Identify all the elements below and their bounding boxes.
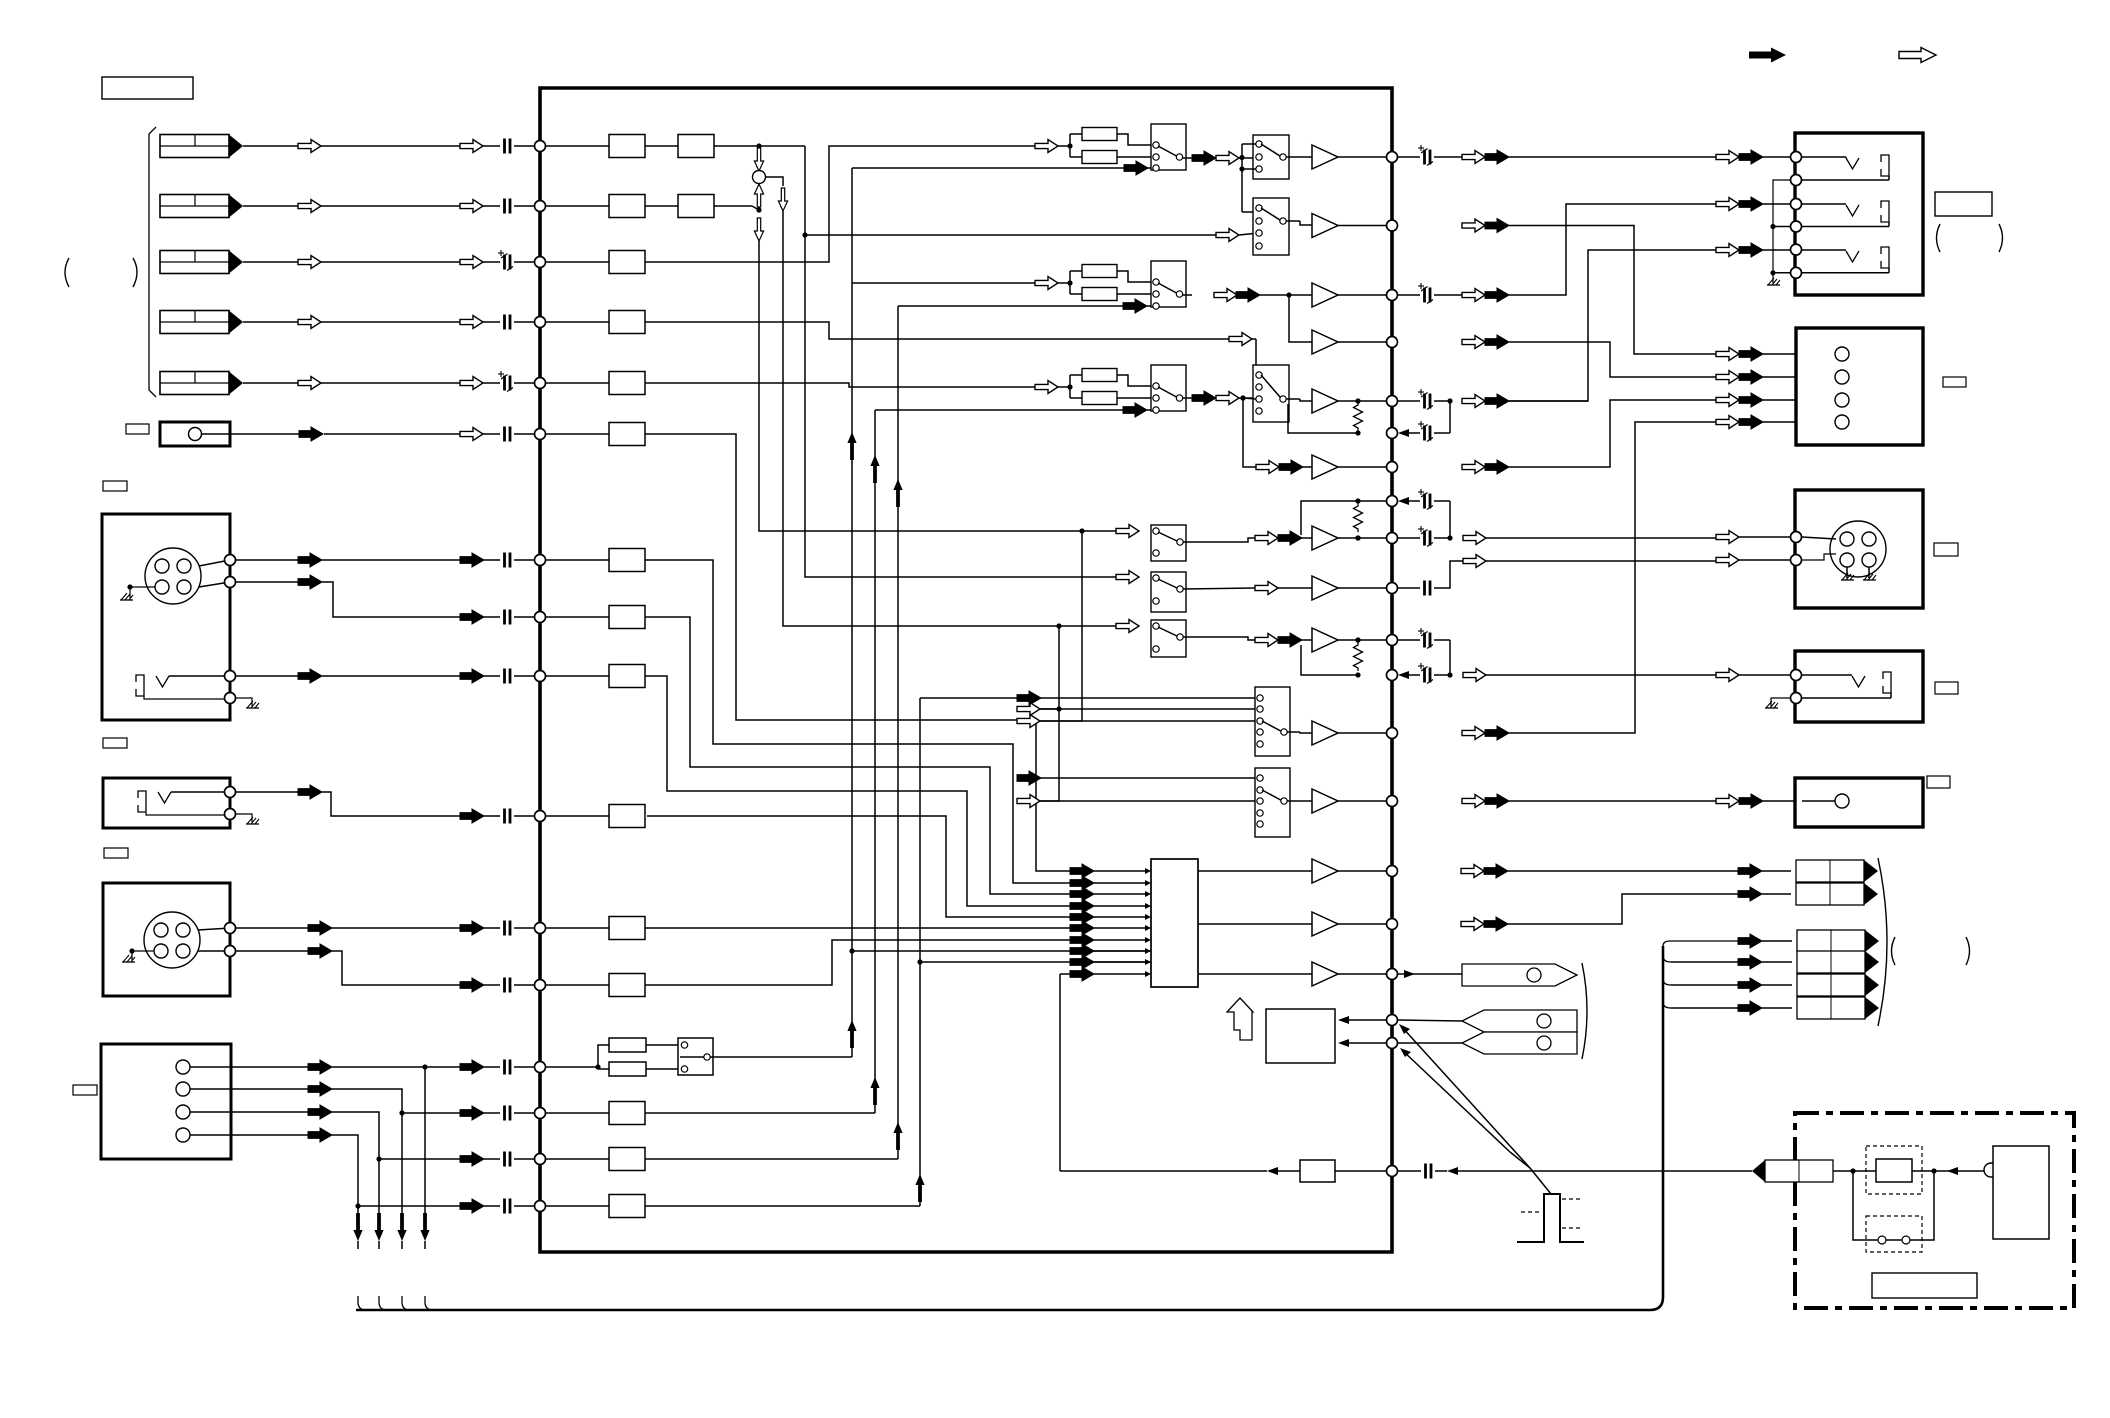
legend filled-arrow [1749, 48, 1786, 63]
wire CH5 input [243, 382, 298, 384]
amp row401 [1286, 398, 1300, 400]
insert send arrow [758, 146, 760, 149]
XLR line input box [103, 883, 230, 996]
wire CH1 to insert [714, 145, 759, 147]
row974 wire to level pennant [1338, 973, 1392, 975]
CH3 riser to pad M1 [645, 146, 1035, 262]
block2 row 206 [678, 195, 714, 218]
block row 1159 [609, 1148, 645, 1171]
amp467 to terminal [1338, 466, 1392, 468]
pad select switch M3 [1151, 365, 1186, 411]
row675 wire to jack out [1700, 674, 1716, 676]
row342 wire to headphone box c2 [1509, 342, 1716, 377]
amp row225 [1286, 220, 1300, 222]
wire CH2 to insert [714, 205, 752, 207]
coupling capacitor row1113 [505, 1106, 511, 1121]
terminal row401 [1387, 396, 1398, 407]
terminal row501 [1387, 496, 1398, 507]
feedback tie 640-675 [1449, 640, 1451, 675]
block row 816 [609, 805, 645, 828]
jack2 tip [158, 792, 171, 803]
bus B vertical (tape L) [874, 410, 876, 1113]
connector pin 4 [176, 1128, 190, 1142]
row225 output arrows [1462, 219, 1485, 232]
headphone terminal 377 [1835, 370, 1849, 384]
4-pin connector input box [101, 1044, 231, 1159]
feedback pair rows 501/538 [1354, 503, 1363, 532]
terminal row733 [1387, 728, 1398, 739]
bus C top feed to M2 switch [898, 305, 1123, 307]
wire S2 feed [1017, 777, 1036, 779]
phones jack1 tip [1846, 158, 1859, 169]
bus D top feed to switch S1 [920, 697, 1017, 699]
pad resistor lower row1067 [598, 1068, 609, 1070]
row538 output arrow [1463, 532, 1486, 545]
terminal mic [535, 429, 546, 440]
terminal row1020 [1387, 1015, 1398, 1026]
XLR1 jack bracket [136, 675, 144, 696]
row157 cap [1398, 156, 1420, 158]
input plug CH5 [160, 372, 243, 395]
jack out label box [1935, 682, 1958, 694]
aux switch A4 output [1183, 637, 1255, 640]
block2 row 146 [678, 135, 714, 158]
terminal row974 [1387, 969, 1398, 980]
row538 wire to XLR out [1700, 537, 1716, 539]
headphone 4ch output box [1796, 328, 1923, 445]
XLR2 ground [122, 955, 135, 962]
XLR1 sleeve ground wire [236, 698, 252, 706]
coupling capacitor mic [505, 427, 511, 442]
foot output box [1795, 778, 1923, 827]
power plug [1752, 1160, 1833, 1182]
wire pin1 [190, 1066, 308, 1068]
selector feed vertical x1059 [1017, 626, 1059, 801]
plug group bracket [1878, 858, 1887, 1026]
wire M2-to-amp295 branch [1289, 295, 1312, 342]
pennant bracket [1582, 963, 1587, 1059]
return wire from power box [1060, 1170, 1267, 1172]
wire pin3 tap row1159 [376, 1156, 381, 1161]
mixer input arrow 906 [1070, 899, 1094, 913]
selector feed vertical x1082 [1017, 531, 1082, 721]
amp225 to terminal [1338, 225, 1392, 227]
block row 262 [609, 251, 645, 274]
mixer out amp 1 [1312, 859, 1338, 883]
mixer input arrow 928 [1070, 921, 1094, 935]
pad entry M1 [1067, 143, 1072, 148]
output plug lineL [1796, 860, 1878, 882]
phones jack2 sleeve [1881, 201, 1889, 222]
row561 wire to XLR out 2 [1700, 560, 1716, 562]
row801 wire to foot out [1716, 795, 1739, 808]
XLR2 internal wires [198, 928, 230, 930]
mixer out 3 wire [1198, 973, 1312, 975]
legend open-arrow [1899, 48, 1936, 63]
level control box [1266, 1009, 1335, 1063]
XLR1 jack wires [169, 675, 225, 677]
mixer out amp 2 [1312, 912, 1338, 936]
aux switch A3 output [1183, 588, 1255, 589]
phones terminal 180 [1791, 175, 1802, 186]
mixer input arrow 940 [1070, 933, 1094, 947]
bus D vertical (monitor) [919, 698, 921, 1206]
return cap [1398, 1170, 1421, 1172]
title label box [102, 77, 193, 99]
row871 wire to line out L [1338, 870, 1392, 872]
footswitch diagonal wires [1399, 1024, 1410, 1034]
coupling capacitor row1159 [505, 1152, 511, 1167]
label box mic [126, 424, 149, 434]
return block [1300, 1160, 1335, 1182]
coupling capacitor XLR1 jack [505, 669, 511, 684]
bottom ground bus [356, 946, 1663, 1310]
pad resistor lower M2 [1070, 293, 1082, 295]
pad M1 output [1183, 157, 1192, 159]
phones jack1 sleeve [1881, 155, 1889, 176]
row588 cap and riser [1398, 587, 1420, 589]
power label box [1872, 1273, 1977, 1298]
power bypass wires [1853, 1171, 1878, 1240]
XLR2 terminals [225, 923, 236, 934]
mixer out 1 wire [1198, 870, 1312, 872]
insert point circle [753, 171, 766, 184]
mic input box [160, 422, 230, 446]
terminal jack2 [535, 811, 546, 822]
label parentheses left [65, 258, 69, 287]
row433 cap and arrow [1398, 429, 1409, 437]
mixer input arrow 917 [1070, 910, 1094, 924]
XLR out label box [1934, 543, 1958, 556]
selector switch C [1253, 365, 1289, 422]
wire XLR1 pad [236, 581, 298, 583]
terminal XLR1 jack [535, 671, 546, 682]
S2 input wires [1040, 777, 1255, 779]
pad select switch M2 [1151, 261, 1186, 307]
selector switch B1 [1253, 135, 1289, 179]
pennant wires to terminals [1398, 1020, 1462, 1021]
wire mic staircase [645, 434, 1070, 871]
pad wires M1 [1117, 134, 1151, 145]
connector pin 3 [176, 1105, 190, 1119]
block row 434 [609, 423, 645, 446]
block row 146 [609, 135, 645, 158]
selector switch B2 [1253, 198, 1289, 255]
XLR out connector [1830, 521, 1886, 577]
block row 383 [609, 372, 645, 395]
return feed vertical [1059, 974, 1061, 1171]
main unit outline [540, 88, 1392, 1252]
coupling capacitor CH5 [498, 371, 513, 392]
row342 output arrows [1462, 336, 1485, 349]
coupling capacitor CH4 [505, 315, 511, 330]
wire XLR2pad to mixer [645, 940, 1070, 985]
phones terminal 204 [1791, 199, 1802, 210]
headphone terminal 422 [1835, 415, 1849, 429]
pad M2 entry feed [852, 282, 1035, 284]
phones terminal 249.6 [1791, 244, 1802, 255]
amp640 input arrow [1255, 634, 1278, 647]
pad entry M2 [1067, 280, 1072, 285]
output plug aux2 [1797, 951, 1879, 973]
wire CH4 input [243, 321, 298, 323]
up block arrow [1227, 998, 1253, 1040]
amp342 to terminal [1338, 341, 1392, 343]
terminal XLR1 pad [535, 612, 546, 623]
phones label box [1935, 192, 1992, 216]
terminal row342 [1387, 337, 1398, 348]
block row 985 [609, 974, 645, 997]
phones terminal 272.8 [1791, 267, 1802, 278]
row467 wire to headphone box c3 [1509, 400, 1716, 467]
phones terminal 157 [1791, 152, 1802, 163]
ground drop hooks [358, 1296, 366, 1310]
wire XLR2hot to mixer [645, 927, 1070, 929]
row801 output arrows [1462, 795, 1485, 808]
block row 1113 [609, 1102, 645, 1125]
jack out tip [1852, 676, 1865, 687]
mixer input arrow 883 [1070, 876, 1094, 890]
coupling capacitor XLR1 hot [505, 553, 511, 568]
row157 output arrows [1462, 151, 1485, 164]
mixer input arrow 962 [1070, 955, 1094, 969]
row640 cap [1398, 639, 1420, 641]
aux switch A4 [1151, 620, 1186, 657]
output plug lineR [1796, 883, 1878, 905]
phones jack3 tip [1846, 251, 1859, 262]
insert return arrow [754, 184, 763, 207]
ground drop wires [357, 1206, 359, 1213]
pad wires M2 [1117, 271, 1151, 282]
jack2 wires [171, 791, 225, 793]
pad wires M3 [1117, 375, 1151, 386]
amp row801 [1288, 800, 1313, 802]
XLR1 connector [145, 548, 201, 604]
coupling capacitor XLR2 hot [505, 921, 511, 936]
power adapter box [1795, 1113, 2074, 1308]
label box XLR2 [104, 848, 128, 858]
wire pin2 [190, 1088, 308, 1090]
mixer out amp 3 [1312, 962, 1338, 986]
jack out ground [1771, 698, 1790, 706]
terminal CH5 [535, 378, 546, 389]
terminal CH4 [535, 317, 546, 328]
mixer out 2 wire [1198, 923, 1312, 925]
coupling capacitor CH2 [505, 199, 511, 214]
phones ground [1767, 278, 1780, 285]
XLR mic input box [102, 514, 230, 720]
output plug aux3 [1797, 974, 1879, 996]
terminal CH3 [535, 257, 546, 268]
mic capsule circle [189, 428, 202, 441]
pad resistor lower M1 [1070, 156, 1082, 158]
row733 output arrows [1462, 727, 1485, 740]
wire mic input [230, 433, 299, 435]
wire CH2 input [243, 205, 298, 207]
row733 wire to headphone box c4 [1509, 422, 1716, 733]
CH1 vertical to switch A3 [805, 146, 1116, 577]
coupling capacitor CH3 [498, 250, 513, 271]
terminal row1159 [535, 1154, 546, 1165]
jack2 sleeve ground [236, 814, 252, 822]
connector pin 1 [176, 1060, 190, 1074]
mixer input arrow 894 [1070, 887, 1094, 901]
row467 output arrows [1462, 461, 1485, 474]
jack2 bracket [138, 791, 146, 812]
XLR1 output terminals [225, 555, 236, 566]
pad resistor upper M2 [1070, 270, 1082, 272]
wire row1206 to bus D [645, 1205, 920, 1207]
terminal row467 [1387, 462, 1398, 473]
amp157 to terminal [1338, 156, 1392, 158]
coupling capacitor XLR1 pad [505, 610, 511, 625]
coupling capacitor XLR2 pad [505, 978, 511, 993]
block row 1206 [609, 1195, 645, 1218]
phones ground rail [1773, 180, 1790, 283]
terminal row924 [1387, 919, 1398, 930]
terminal XLR2 pad [535, 980, 546, 991]
wire row1159 to bus C [645, 1158, 898, 1160]
input plug CH4 [160, 311, 243, 334]
terminal CH1 [535, 141, 546, 152]
output plug aux1 [1797, 930, 1879, 952]
footswitch level symbol [1517, 1194, 1584, 1242]
row501 cap and arrow [1398, 497, 1409, 505]
amp295 to terminal [1338, 294, 1392, 296]
S1 input wires [1040, 697, 1255, 699]
row295 wire to phones jack2 [1509, 204, 1716, 295]
CH1 tap to selector B2 [805, 234, 1216, 236]
power source circle [1984, 1163, 1998, 1177]
label box jack input [103, 738, 127, 748]
terminal row433 [1387, 428, 1398, 439]
jack out terminals [1791, 670, 1802, 681]
monitor switch S2 [1255, 768, 1290, 837]
phones jack2 tip [1846, 205, 1859, 216]
aux switch A2 [1151, 525, 1186, 561]
row295 output arrows [1462, 289, 1485, 302]
monitor switch S1 [1255, 687, 1290, 756]
terminal pin1 [535, 1062, 546, 1073]
mixer summing block [1151, 859, 1198, 987]
feedback tie 501-538 [1449, 501, 1451, 538]
wire XLR1 jack [236, 675, 298, 677]
amp row733 [1288, 731, 1301, 733]
wire XLR1 hot [236, 559, 298, 561]
XLR output box [1795, 490, 1923, 608]
connector pin 2 [176, 1082, 190, 1096]
feedback pair rows 401/433 [1354, 402, 1363, 431]
terminal row640 [1387, 635, 1398, 646]
terminal CH2 [535, 201, 546, 212]
insert tap to switch A4 [765, 177, 783, 186]
row295 cap [1398, 294, 1420, 296]
bus C vertical (tape R) [897, 306, 899, 1159]
wire CH3 input [243, 261, 298, 263]
terminal row295 [1387, 290, 1398, 301]
block row 206 [609, 195, 645, 218]
terminal XLR2 hot [535, 923, 546, 934]
aux switch A2 output [1183, 538, 1255, 542]
block row 676 [609, 665, 645, 688]
XLR out grounds [1846, 567, 1848, 578]
feedback pair rows 640/675 [1354, 642, 1363, 671]
row225 wire to headphone box c1 [1509, 226, 1716, 355]
wire row1067 [545, 1066, 598, 1068]
row401 wire to phones jack3 [1509, 250, 1716, 401]
terminal XLR1 hot [535, 555, 546, 566]
XLR1 jack tip [156, 676, 169, 687]
bus A top feed to M1 switch [852, 167, 1124, 169]
aux switch A3 [1151, 572, 1186, 612]
selector C feed drop [1255, 339, 1257, 375]
row675 cap and arrow [1398, 671, 1409, 679]
label box XLR1 [103, 481, 127, 491]
terminal row1113 [535, 1108, 546, 1119]
wire pad switch output [710, 1056, 852, 1058]
selector C feed from M3 [1240, 395, 1245, 400]
CH5 wire jog to M3 entry [645, 383, 1035, 387]
headphone terminal 400 [1835, 393, 1849, 407]
wire pin4 tap row1206 [355, 1203, 360, 1208]
XLR1 ground [120, 593, 133, 600]
terminal row675 [1387, 670, 1398, 681]
pad resistor upper M1 [1070, 133, 1082, 135]
amp row588 [1255, 582, 1278, 595]
foot out label box [1927, 776, 1950, 788]
level control input wires [1341, 1019, 1386, 1021]
power switch dashed box [1866, 1216, 1922, 1252]
power source block [1993, 1146, 2049, 1239]
selector B1 feed vertical [1241, 144, 1243, 212]
row561 output arrow [1463, 555, 1486, 568]
phones pennant L [1462, 1010, 1577, 1032]
wire pin2 tap row1113 [399, 1110, 404, 1115]
wire XLR1hot staircase [645, 560, 1070, 883]
phones jack3 sleeve [1881, 247, 1889, 268]
headphone label box [1943, 377, 1966, 387]
amp row295 [1312, 283, 1338, 307]
terminal row1171 [1387, 1166, 1398, 1177]
XLR out wires [1802, 537, 1836, 539]
return arrow [1447, 1167, 1458, 1175]
wire CH1 input [243, 145, 298, 147]
aux label parentheses [1892, 937, 1896, 965]
terminal row157 [1387, 152, 1398, 163]
XLR out terminals [1791, 532, 1802, 543]
bus A tap to mixer [852, 950, 1151, 952]
CH4 wire to selector C [645, 322, 1229, 339]
mixer input arrow 871 [1070, 864, 1094, 878]
wire row1113 to bus B [645, 1112, 875, 1114]
power switch circles [1878, 1236, 1886, 1244]
XLR1 internal wires [199, 560, 230, 566]
selector C branch to amp467 [1243, 398, 1256, 467]
row924 wire to line out R [1338, 923, 1392, 925]
wire XLR2 hot [236, 927, 308, 929]
phones output box [1795, 133, 1923, 295]
block row 560 [609, 549, 645, 572]
wire XLR1pad staircase [645, 617, 1070, 894]
terminal row225 [1387, 220, 1398, 231]
power regulator dashed box [1866, 1146, 1922, 1194]
pad resistor upper M3 [1070, 374, 1082, 376]
mixer input arrow 974 [1070, 967, 1094, 981]
coupling capacitor CH1 [505, 139, 511, 154]
feedback cap row401 [1418, 389, 1433, 410]
power internal wire [1833, 1170, 1876, 1172]
label box DC connector [73, 1085, 97, 1095]
